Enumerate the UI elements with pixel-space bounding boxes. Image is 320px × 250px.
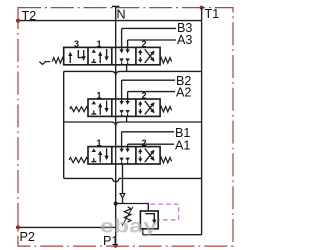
valve V3 work box port stems xyxy=(116,47,130,64)
wire B3 work line xyxy=(122,27,176,29)
wire P1 line down to port xyxy=(115,204,117,246)
relief valve RV adjust arrow xyxy=(122,207,133,226)
check arrow (hollow, down) xyxy=(120,194,125,198)
valve V1 work box port stems xyxy=(116,147,130,164)
enclosure (valve block dashed boundary) xyxy=(18,8,233,247)
svg-text:A2: A2 xyxy=(176,86,191,100)
wire center line below V3 with merge arcs xyxy=(64,65,202,99)
svg-text:T1: T1 xyxy=(205,7,220,21)
wire P2 line xyxy=(18,226,116,228)
port P2 junction dot xyxy=(16,225,20,229)
valve V1 neutral box symbols xyxy=(91,148,106,162)
valve V2 neutral box symbols xyxy=(91,101,106,115)
wire bottom tank line xyxy=(143,234,202,236)
valve V1 body (3-position, boxes) xyxy=(88,147,160,164)
valve V2 work box port stems xyxy=(116,99,130,116)
port T2 junction dot xyxy=(16,19,20,23)
node junction dot xyxy=(114,201,118,205)
relief valve RV internal arrow xyxy=(145,214,154,224)
relief valve RV pilot line (dashed) xyxy=(151,204,179,220)
wire T1 right rail vertical xyxy=(201,8,203,235)
valve V2 cross box symbols xyxy=(138,101,154,115)
port T1 junction dot xyxy=(200,6,204,10)
wire N vertical down to valve V3 xyxy=(115,6,117,47)
wire carry-over stub with check arrow xyxy=(122,164,124,194)
valve V3 left spring xyxy=(52,58,64,63)
valve V2 right spring xyxy=(160,107,172,112)
valve V3 body (4-position, boxes) xyxy=(64,47,160,64)
wire B2 work line xyxy=(122,79,175,81)
valve V2 left spring xyxy=(70,107,88,112)
wire A3 work line xyxy=(128,39,176,41)
wire A2 work line xyxy=(128,91,175,93)
valve V3 float box arrows xyxy=(70,50,83,63)
svg-text:ebay: ebay xyxy=(100,216,157,238)
port N tick xyxy=(112,5,119,7)
wire A1 work line xyxy=(128,143,174,145)
valve V3 cross box symbols xyxy=(138,49,154,63)
wire center line below V2 with merge arcs xyxy=(64,116,202,146)
relief valve RV spring xyxy=(124,207,131,222)
svg-text:T2: T2 xyxy=(22,9,37,23)
relief valve RV outlet stub xyxy=(142,229,144,235)
valve V1 cross box symbols xyxy=(138,149,154,163)
wire B1 work line xyxy=(122,131,174,133)
wire center P line down to node xyxy=(115,164,117,204)
relief valve RV body xyxy=(140,211,158,229)
wire bypass line below V1 with crossover hop xyxy=(64,178,202,181)
valve V3 detent xyxy=(39,62,50,65)
wire T2-T1 tank line xyxy=(18,20,202,22)
svg-text:P2: P2 xyxy=(20,230,35,244)
valve V3 neutral box symbols xyxy=(91,49,106,63)
svg-text:A1: A1 xyxy=(175,138,190,152)
wire node to relief valve xyxy=(116,204,149,212)
valve V1 right spring xyxy=(160,157,172,162)
svg-text:N: N xyxy=(117,8,126,22)
valve V2 body (3-position, boxes) xyxy=(88,99,160,116)
svg-text:A3: A3 xyxy=(177,33,192,47)
left tank rail xyxy=(63,71,65,178)
valve V3 right spring xyxy=(160,58,172,63)
port P1 junction dot xyxy=(114,244,118,248)
valve V1 left spring xyxy=(69,158,88,163)
